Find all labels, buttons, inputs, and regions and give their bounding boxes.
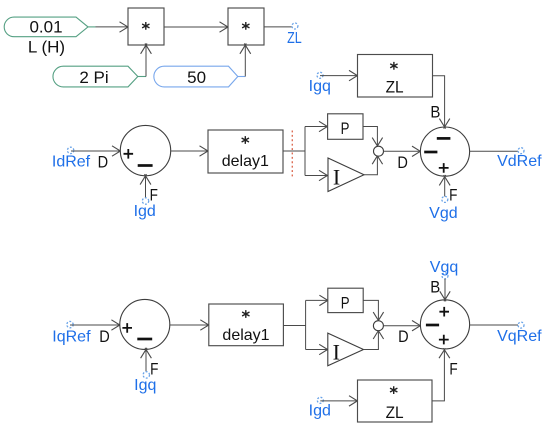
svg-text:Vgq: Vgq xyxy=(430,259,458,276)
wire IdRef to S1 xyxy=(71,146,122,156)
label D row3 input xyxy=(99,327,110,346)
port Igd xyxy=(134,198,156,220)
label D row2 input xyxy=(98,153,109,172)
summing junction S4 xyxy=(420,300,469,349)
svg-text:F: F xyxy=(150,359,158,378)
wire S4 to VqRef xyxy=(470,324,518,326)
block delay1 row2 xyxy=(208,130,283,173)
wire Igd to S1 bottom xyxy=(140,174,151,198)
svg-text:D: D xyxy=(397,153,408,172)
wire Vgd to S2 bottom xyxy=(439,175,450,197)
svg-text:IdRef: IdRef xyxy=(52,153,91,170)
wire ZL to S4 bottom xyxy=(432,348,450,401)
multiplier M1 xyxy=(128,8,164,45)
I integrator triangle row3 xyxy=(328,333,364,366)
port Igd lower xyxy=(309,397,331,419)
branch wire row2 xyxy=(304,127,306,176)
svg-text:D: D xyxy=(398,327,409,346)
wire ZL to S2 top xyxy=(433,76,450,129)
wire P to junction row3 xyxy=(363,300,383,322)
svg-text:F: F xyxy=(449,360,457,379)
svg-text:ZL: ZL xyxy=(287,30,302,47)
wire S3 to delay1 xyxy=(170,320,211,330)
constant tag 50 xyxy=(154,66,238,87)
port VqRef xyxy=(497,322,542,345)
svg-text:VqRef: VqRef xyxy=(497,328,542,345)
summing junction S2 xyxy=(420,127,469,176)
junction circle row3 xyxy=(373,321,383,331)
svg-text:Igq: Igq xyxy=(134,377,156,394)
port Igq lower xyxy=(134,372,156,394)
svg-text:0.01: 0.01 xyxy=(29,18,62,37)
wire branch to I xyxy=(305,170,329,180)
wire 2 Pi to M1 bottom xyxy=(138,43,152,76)
port Igq xyxy=(309,72,331,95)
svg-text:ZL: ZL xyxy=(386,78,404,97)
wire junction to S2 xyxy=(384,146,423,156)
multiplier M2 xyxy=(228,8,264,45)
svg-text:F: F xyxy=(449,186,457,205)
label F row3 right sum xyxy=(449,360,457,379)
label D row3 pi out xyxy=(398,327,409,346)
wire S1 to delay1 xyxy=(171,146,210,156)
svg-text:L (H): L (H) xyxy=(28,38,65,57)
svg-text:Igd: Igd xyxy=(309,403,331,420)
port Vgq xyxy=(430,259,458,279)
I integrator triangle row2 xyxy=(328,158,364,192)
label F row2 right sum xyxy=(449,186,457,205)
wire branch to I row3 xyxy=(306,344,330,354)
svg-text:2 Pi: 2 Pi xyxy=(79,68,108,87)
junction circle row2 xyxy=(374,146,384,156)
svg-text:P: P xyxy=(341,294,350,313)
constant tag 0.01 xyxy=(4,17,88,37)
port VdRef xyxy=(497,148,542,170)
label F row2 left sum xyxy=(150,185,158,204)
wire M2 to ZL port xyxy=(264,26,295,28)
block ZL row3 xyxy=(358,380,433,422)
wire IqRef to S3 xyxy=(70,320,121,330)
wire I to junction row3 xyxy=(364,329,384,350)
P block row3 xyxy=(328,288,363,312)
port Vgd xyxy=(429,196,457,222)
wire P to junction xyxy=(363,127,383,148)
svg-text:B: B xyxy=(430,102,440,121)
label F row3 left sum xyxy=(150,359,158,378)
svg-text:Igd: Igd xyxy=(134,203,156,220)
constant tag 2 Pi xyxy=(53,66,138,87)
wire I to junction xyxy=(364,154,383,175)
wire M1 to M2 xyxy=(164,22,230,32)
svg-text:D: D xyxy=(99,327,110,346)
svg-text:I: I xyxy=(333,340,340,365)
red probe separator xyxy=(291,131,293,178)
wire S2 to VdRef xyxy=(470,150,518,152)
port IqRef xyxy=(52,321,91,345)
label D row2 pi out xyxy=(397,153,408,172)
port ZL xyxy=(287,23,302,47)
branch wire row3 xyxy=(305,300,307,349)
label B row3 xyxy=(430,278,440,297)
block ZL row2 xyxy=(358,55,433,98)
wire Igq to ZL block xyxy=(320,70,359,80)
label B row2 xyxy=(430,102,440,121)
svg-text:D: D xyxy=(98,153,109,172)
label L (H) xyxy=(28,38,65,57)
svg-text:P: P xyxy=(341,119,350,138)
svg-text:B: B xyxy=(430,278,440,297)
wire Igd to ZL block row3 xyxy=(320,396,359,406)
wire 50 to M2 bottom xyxy=(238,43,251,76)
svg-text:Vgd: Vgd xyxy=(429,205,457,222)
svg-text:ZL: ZL xyxy=(386,403,404,422)
wire 0.01 to M1 xyxy=(88,22,130,32)
svg-text:delay1: delay1 xyxy=(222,327,269,344)
wire branch to P row3 xyxy=(306,295,330,305)
block delay1 row3 xyxy=(209,304,284,346)
wire junction to S4 xyxy=(383,321,422,331)
wire delay1 to branch xyxy=(283,150,305,152)
svg-text:delay1: delay1 xyxy=(222,153,269,170)
summing junction S3 xyxy=(120,299,170,349)
wire Vgq to S4 top xyxy=(440,279,450,302)
svg-text:50: 50 xyxy=(187,68,206,87)
P block row2 xyxy=(328,114,363,140)
svg-text:IqRef: IqRef xyxy=(52,329,91,346)
svg-text:VdRef: VdRef xyxy=(497,153,542,170)
svg-text:I: I xyxy=(333,165,340,190)
svg-text:F: F xyxy=(150,185,158,204)
wire branch to P xyxy=(305,121,329,131)
summing junction S1 xyxy=(120,125,170,175)
port IdRef xyxy=(52,147,91,170)
wire Igq to S3 bottom xyxy=(141,348,152,372)
wire delay1 to branch row3 xyxy=(283,325,305,327)
svg-text:Igq: Igq xyxy=(309,78,331,95)
